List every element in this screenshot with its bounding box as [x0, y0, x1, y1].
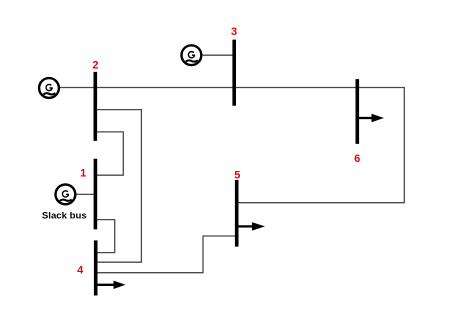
svg-text:4: 4 [77, 264, 84, 276]
svg-text:1: 1 [80, 167, 86, 179]
svg-text:Slack bus: Slack bus [42, 211, 87, 222]
svg-text:3: 3 [231, 26, 237, 38]
svg-text:2: 2 [92, 60, 98, 72]
svg-text:5: 5 [234, 169, 240, 181]
svg-text:6: 6 [354, 153, 360, 165]
